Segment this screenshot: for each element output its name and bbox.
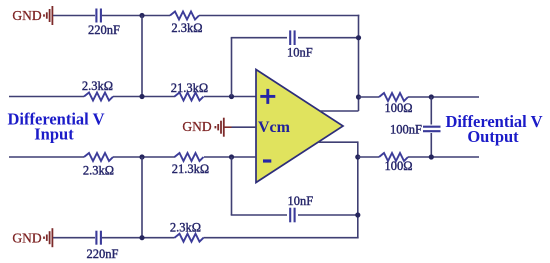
junction — [356, 94, 361, 99]
wire — [298, 214, 358, 216]
svg-text:100nF: 100nF — [390, 122, 422, 136]
ground — [215, 118, 223, 137]
junction — [429, 94, 434, 99]
junction — [139, 13, 144, 18]
wire — [430, 97, 432, 125]
wire — [408, 96, 479, 98]
wire — [53, 15, 95, 17]
svg-text:2.3kΩ: 2.3kΩ — [83, 163, 114, 177]
capacitor C3 — [290, 208, 294, 223]
svg-text:2.3kΩ: 2.3kΩ — [82, 79, 113, 93]
junction — [139, 154, 144, 159]
wire — [102, 237, 175, 239]
svg-text:Vcm: Vcm — [258, 119, 291, 136]
junction — [355, 212, 360, 217]
wire — [231, 38, 233, 97]
resistor R5 — [379, 153, 408, 161]
wire — [358, 15, 360, 111]
wire — [204, 156, 256, 158]
wire — [225, 126, 232, 128]
resistor R4 — [379, 93, 408, 101]
svg-text:Input: Input — [34, 125, 74, 144]
resistor R8 — [175, 234, 204, 242]
svg-text:10nF: 10nF — [287, 194, 313, 208]
svg-text:220nF: 220nF — [87, 247, 119, 261]
wire — [358, 156, 379, 158]
wire — [102, 15, 170, 17]
svg-text:2.3kΩ: 2.3kΩ — [171, 21, 202, 35]
wire — [232, 126, 257, 128]
svg-text:2.3kΩ: 2.3kΩ — [170, 221, 201, 235]
wire — [231, 214, 287, 216]
wire — [357, 141, 359, 238]
wire — [408, 156, 479, 158]
junction — [229, 154, 234, 159]
wire — [113, 156, 175, 158]
wire — [204, 237, 359, 239]
svg-text:GND: GND — [182, 119, 211, 134]
junction — [229, 94, 234, 99]
wire — [113, 96, 175, 98]
op-amp U1 — [256, 70, 343, 183]
wire — [231, 157, 233, 215]
junction — [355, 154, 360, 159]
ground — [44, 6, 52, 25]
pin + — [260, 89, 275, 104]
capacitor C2 — [290, 30, 294, 45]
svg-text:21.3kΩ: 21.3kΩ — [172, 162, 209, 176]
svg-text:GND: GND — [12, 8, 41, 23]
junction — [429, 154, 434, 159]
wire — [359, 96, 380, 98]
wire — [9, 96, 84, 98]
ground — [44, 228, 52, 247]
resistor R6 — [84, 153, 113, 161]
svg-text:21.3kΩ: 21.3kΩ — [171, 81, 208, 95]
junction — [139, 94, 144, 99]
wire — [9, 156, 84, 158]
resistor R1 — [170, 12, 199, 20]
svg-text:100Ω: 100Ω — [384, 159, 412, 173]
wire — [141, 157, 143, 238]
capacitor C5 — [423, 127, 441, 132]
pin - — [263, 159, 271, 162]
wire — [430, 133, 432, 157]
wire — [298, 37, 359, 39]
capacitor C4 — [96, 231, 101, 245]
svg-text:10nF: 10nF — [287, 46, 313, 60]
resistor R7 — [175, 153, 204, 161]
wire — [53, 237, 95, 239]
capacitor C1 — [96, 9, 101, 23]
wire — [204, 96, 256, 98]
junction — [139, 235, 144, 240]
resistor R3 — [175, 93, 204, 101]
svg-text:Output: Output — [467, 127, 519, 146]
wire — [320, 110, 359, 112]
wire — [199, 15, 359, 17]
resistor R2 — [84, 93, 113, 101]
svg-text:220nF: 220nF — [88, 23, 120, 37]
svg-text:GND: GND — [12, 230, 41, 245]
junction — [356, 35, 361, 40]
wire — [318, 141, 358, 143]
wire — [231, 37, 287, 39]
svg-text:100Ω: 100Ω — [384, 101, 412, 115]
wire — [141, 16, 143, 97]
